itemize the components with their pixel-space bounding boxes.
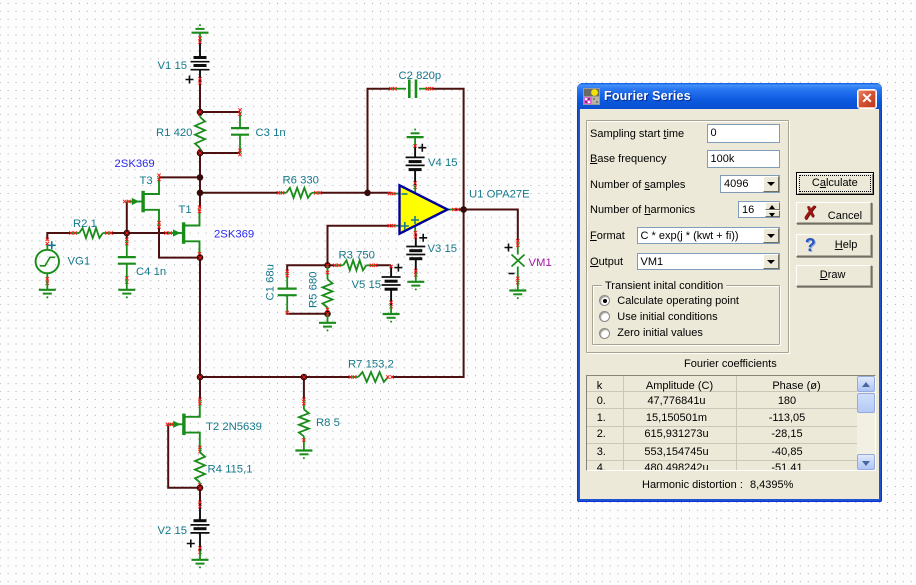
svg-text:V5 15: V5 15 xyxy=(352,279,382,291)
plus of VG1 xyxy=(48,241,56,249)
ground of VG1 xyxy=(46,281,48,290)
node R5 bottom xyxy=(324,311,331,318)
node R6 rail xyxy=(197,190,204,197)
resistor R4 xyxy=(199,448,201,452)
svg-text:2SK369: 2SK369 xyxy=(214,229,254,241)
wire T3 gate down to input node xyxy=(126,202,128,234)
svg-text:C1 68u: C1 68u xyxy=(265,264,277,300)
wire R6 to op-amp inverting input xyxy=(320,192,392,194)
ground of VM1 xyxy=(517,282,519,291)
resistor R5 xyxy=(327,265,329,279)
node R1 bottom xyxy=(197,150,204,157)
wire VG1 to R2 xyxy=(47,233,71,240)
svg-text:R6 330: R6 330 xyxy=(283,175,319,187)
plus of V1 xyxy=(186,76,194,84)
wire rail to T2 drain xyxy=(199,376,201,400)
wire R4 bottom node to V2 xyxy=(199,487,201,503)
svg-text:T3: T3 xyxy=(140,175,153,187)
wire R7 left to bottom rail xyxy=(199,376,351,378)
svg-text:C4 1n: C4 1n xyxy=(136,266,166,278)
wire rail to R8 xyxy=(303,376,305,400)
capacitor C4 xyxy=(126,240,128,256)
svg-text:R5 680: R5 680 xyxy=(308,272,320,308)
resistor R7 xyxy=(351,376,358,378)
node T1 gate / C4 xyxy=(124,230,131,237)
plus of V4 xyxy=(418,144,426,152)
wire C3 bottom to node xyxy=(199,152,240,154)
wire main rail R1 bottom to T1 drain xyxy=(199,152,201,209)
svg-text:C2 820p: C2 820p xyxy=(399,70,442,82)
wire input node to C1 xyxy=(287,265,327,272)
ground of V3 xyxy=(415,273,417,282)
svg-text:V3 15: V3 15 xyxy=(428,243,458,255)
ground top of V1 xyxy=(199,33,201,41)
svg-text:V4 15: V4 15 xyxy=(428,157,458,169)
minus of VM1 xyxy=(509,273,515,275)
wire R3 to V5 xyxy=(375,264,391,266)
resistor R6 xyxy=(279,192,286,194)
dialog window Fourier Series xyxy=(577,83,882,502)
wire T1 source rail down xyxy=(199,257,201,378)
resistor R2 xyxy=(72,232,80,234)
ground of V5 xyxy=(390,305,392,314)
wire output node down to R7 xyxy=(392,210,464,378)
wire op-amp noninverting input xyxy=(328,226,392,266)
node noninverting network xyxy=(324,262,331,269)
ground of V2 xyxy=(199,551,201,560)
wire R2 to input node xyxy=(110,232,127,234)
svg-text:V1 15: V1 15 xyxy=(158,60,188,72)
resistor R3 xyxy=(343,260,366,270)
wire T2 gate feedback loop xyxy=(168,424,200,488)
plus of V3 xyxy=(419,234,427,242)
svg-text:T2 2N5639: T2 2N5639 xyxy=(206,421,262,433)
node output xyxy=(460,206,467,213)
wire C2 left leg xyxy=(368,89,392,193)
wire node to R3 xyxy=(327,264,336,266)
svg-text:R3 750: R3 750 xyxy=(339,250,375,262)
battery V4 xyxy=(414,145,416,158)
wire node to C3 top xyxy=(199,111,240,113)
battery V1 xyxy=(199,40,201,57)
voltage generator VG1 xyxy=(36,250,59,273)
svg-text:T1: T1 xyxy=(179,204,192,216)
capacitor C2 xyxy=(391,88,406,90)
plus of V2 xyxy=(187,540,195,548)
plus of VM1 xyxy=(505,244,513,252)
capacitor C3 xyxy=(239,112,241,127)
capacitor C1 xyxy=(286,273,288,288)
wire T1 gate xyxy=(127,232,168,234)
ground above V4 xyxy=(414,137,416,145)
transistor T1 2SK369 xyxy=(182,222,185,244)
node R7 rail xyxy=(197,374,204,381)
node R4 bottom xyxy=(197,485,204,492)
wire rail to R6 xyxy=(200,192,279,194)
svg-text:R4 115,1: R4 115,1 xyxy=(208,464,253,476)
transistor T3 2SK369 xyxy=(141,191,144,213)
node R1 top xyxy=(197,109,204,116)
resistor R1 xyxy=(199,112,201,117)
battery V3 xyxy=(415,234,417,247)
svg-text:R1 420: R1 420 xyxy=(156,127,192,139)
voltmeter VM1 xyxy=(517,242,519,255)
wire V1 minus to node xyxy=(199,81,201,113)
svg-text:R7 153,2: R7 153,2 xyxy=(348,359,394,371)
battery V2 xyxy=(199,503,201,520)
transistor T2 2N5639 xyxy=(182,414,185,436)
wire C2 right leg to output node xyxy=(431,89,464,210)
svg-text:VG1: VG1 xyxy=(68,256,91,268)
resistor R8 xyxy=(303,400,305,409)
ground of R8 xyxy=(303,442,305,451)
wire output to VM1 xyxy=(455,210,518,242)
svg-text:R2 1: R2 1 xyxy=(73,218,97,230)
op-amp U1 OPA27E xyxy=(414,185,416,195)
wire C1 bottom to R5 bottom node xyxy=(287,313,327,315)
node T3 drain rail xyxy=(197,174,204,181)
battery V5 xyxy=(390,265,392,277)
svg-text:2SK369: 2SK369 xyxy=(115,158,155,170)
wire input node to C4 xyxy=(126,233,128,240)
svg-text:C3 1n: C3 1n xyxy=(256,127,286,139)
node R8 rail xyxy=(301,374,308,381)
ground of R5 xyxy=(327,314,329,323)
node C2 left / inverting input xyxy=(364,190,371,197)
ground of C4 xyxy=(126,281,128,290)
wire T3 drain to rail xyxy=(159,176,201,178)
svg-text:V2 15: V2 15 xyxy=(158,525,188,537)
svg-text:R8 5: R8 5 xyxy=(316,417,340,429)
svg-text:VM1: VM1 xyxy=(529,257,552,269)
node T1 source xyxy=(197,254,204,261)
svg-text:U1 OPA27E: U1 OPA27E xyxy=(469,189,530,201)
wire T3 source down to T1 source node xyxy=(159,225,200,258)
plus of V5 xyxy=(394,264,402,272)
